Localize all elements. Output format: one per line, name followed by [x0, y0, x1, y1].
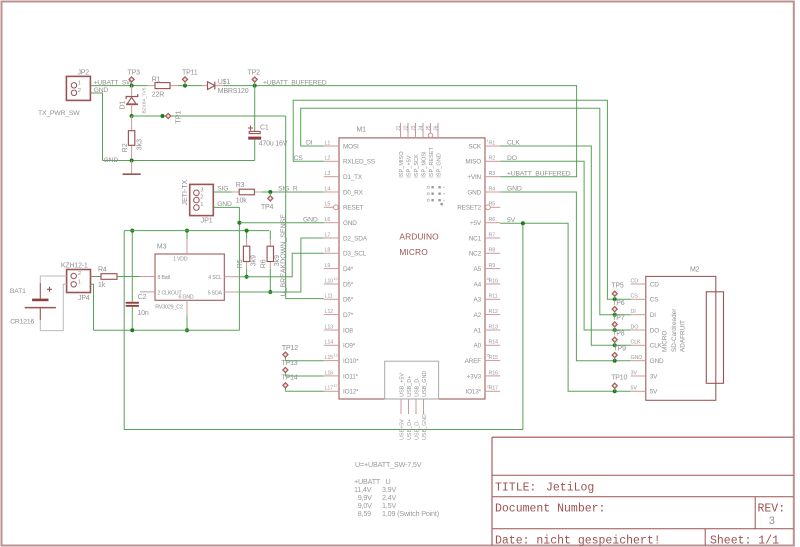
M1 pin name +VIN right	[467, 174, 481, 181]
testpoint TP13 name	[282, 360, 298, 367]
svg-text:1 VDD: 1 VDD	[173, 256, 188, 262]
svg-text:+VIN: +VIN	[467, 174, 481, 181]
M1 ISP pad J4	[418, 125, 424, 131]
junction at TP8	[613, 343, 617, 347]
svg-text:USB_GND: USB_GND	[422, 371, 428, 397]
note row 11,4V 3,9V	[354, 485, 396, 494]
JP1 pin 1 number	[200, 202, 203, 208]
svg-text:L8: L8	[325, 248, 331, 254]
svg-text:MICRO: MICRO	[399, 247, 428, 257]
junction C2 on GND rail	[130, 328, 134, 332]
testpoint TP1	[166, 113, 171, 118]
M1 USB pad USB+5V	[400, 419, 406, 440]
wire +UBATT_BUFFERED down to C1	[254, 86, 256, 132]
capacitor C2 bottom lead	[131, 307, 133, 331]
svg-text:+UBATT_SW: +UBATT_SW	[94, 79, 134, 86]
M1 USB connector gray box	[385, 361, 439, 399]
svg-text:JP1: JP1	[201, 217, 213, 224]
junction at TP4	[268, 190, 272, 194]
M1 ISP pin J5 stub	[428, 123, 432, 138]
svg-text:J2: J2	[403, 125, 409, 131]
capacitor C2 value 10n	[137, 310, 148, 317]
svg-text:D1: D1	[119, 100, 126, 109]
testpoint TP9 name	[614, 346, 627, 353]
JP1 pin 3 number	[200, 187, 203, 193]
svg-text:L10: L10	[325, 278, 334, 284]
svg-text:R1: R1	[152, 76, 161, 83]
svg-text:JetiLog: JetiLog	[546, 482, 594, 495]
M1 ISP pin name ISP_SCK	[414, 154, 420, 178]
svg-text:D1_TX: D1_TX	[343, 174, 363, 181]
M1 pin name D3_SCL	[343, 251, 367, 258]
net label GND at JP2	[94, 87, 109, 94]
M1 pin L5 RESET stub and pad	[324, 202, 339, 210]
IC M2 label MICRO	[662, 331, 669, 352]
svg-text:CLK: CLK	[650, 343, 663, 350]
svg-text:RESET2: RESET2	[457, 205, 481, 212]
resistor R6 body	[267, 246, 273, 261]
net label U_BREAKDOWN_SENSE	[280, 214, 287, 297]
testpoint TP4	[268, 192, 273, 201]
svg-text:A1: A1	[474, 327, 482, 334]
M1 ISP pin name ISP_MOSI	[422, 151, 428, 178]
svg-text:10k: 10k	[236, 198, 247, 205]
M1 pin name D7*	[343, 312, 354, 319]
testpoint TP12 name	[282, 345, 298, 352]
diode U$1 name	[218, 79, 231, 86]
wire CS net from M1 L2 over top to SD card	[293, 100, 631, 299]
svg-text:USB_D+: USB_D+	[407, 376, 413, 397]
M1 pin name A3 right	[474, 297, 482, 304]
title block Document Number label	[495, 503, 605, 516]
M1 pin name GND	[343, 220, 357, 227]
JP1 pin 2 number	[200, 195, 203, 201]
note row 8,59 1,09 switch point	[358, 509, 439, 518]
svg-text:TP8: TP8	[612, 330, 625, 337]
svg-text:RXLED_SS: RXLED_SS	[343, 159, 375, 166]
M1 pin name IO11*	[343, 373, 359, 380]
M1 pin name GND right	[467, 189, 481, 196]
svg-text:DO: DO	[507, 155, 517, 162]
M1 pin name D2_SDA	[343, 235, 368, 242]
resistor R2 body	[128, 131, 134, 146]
battery BAT1 negative plate	[25, 307, 56, 309]
svg-text:R1: R1	[489, 140, 496, 146]
M1 USB pad USB_GND	[422, 414, 428, 440]
svg-text:CS: CS	[294, 155, 304, 162]
M1 pin name MISO right	[465, 159, 481, 166]
IC M3 value RV3029_C2	[155, 304, 183, 310]
svg-text:USB_+5V: USB_+5V	[400, 373, 406, 397]
net label CS	[294, 155, 304, 162]
testpoint TP3 name	[128, 70, 141, 77]
svg-text:R5: R5	[489, 202, 496, 208]
capacitor C1 bottom plate	[248, 137, 261, 140]
M1 pin L17 IO12* stub and pad	[324, 384, 339, 392]
battery BAT1 leads	[39, 283, 41, 320]
title block Date	[495, 535, 661, 547]
M1 pin name D6*	[343, 297, 354, 304]
battery BAT1 name	[10, 288, 26, 295]
M2 pin name DO	[650, 327, 659, 334]
title block TITLE label	[495, 482, 536, 495]
testpoint TP5	[612, 291, 617, 299]
net label 5V	[507, 217, 516, 224]
svg-text:TP4: TP4	[261, 204, 274, 211]
IC M3 name	[157, 244, 167, 251]
svg-text:MISO: MISO	[465, 159, 481, 166]
svg-text:L15: L15	[325, 355, 334, 361]
svg-text:15: 15	[334, 353, 338, 357]
svg-text:D2_SDA: D2_SDA	[343, 235, 368, 242]
note row 9,9V 2,4V	[358, 493, 397, 502]
connector JP2 body	[66, 76, 90, 100]
wire DO from M1 R2 to SD card	[500, 161, 631, 330]
svg-text:TP6: TP6	[612, 300, 625, 307]
svg-text:15: 15	[486, 354, 490, 358]
M1 USB pin USB_GND stub	[423, 399, 425, 414]
M3 pin 2 CLKOUT label	[158, 290, 183, 296]
svg-text:NC2: NC2	[469, 251, 482, 258]
M1 ISP pin J2 stub	[407, 123, 409, 138]
junction C2 on 5V rail	[130, 229, 134, 233]
M2 pin name CD	[650, 281, 659, 288]
M1 pin R12 A2 stub and pad	[485, 309, 500, 315]
net label +UBATT_BUFFERED	[263, 79, 327, 86]
svg-text:R11: R11	[489, 294, 498, 300]
svg-text:3k9: 3k9	[274, 255, 281, 266]
M3 pin 5 SDA label	[208, 290, 223, 296]
M1 pin L8 D3_SCL stub and pad	[324, 248, 339, 254]
svg-text:470u 16V: 470u 16V	[259, 141, 288, 148]
svg-text:R5: R5	[237, 259, 244, 268]
svg-text:TP5: TP5	[611, 283, 624, 290]
net label DO	[507, 155, 517, 162]
wire +UBATT_BUFFERED top run	[224, 86, 577, 177]
svg-text:6 GND: 6 GND	[179, 295, 194, 301]
svg-text:SIG: SIG	[217, 186, 228, 193]
label TX_PWR_SW	[38, 110, 80, 117]
title block revision value 3	[769, 516, 776, 528]
svg-text:R7: R7	[489, 232, 496, 238]
svg-text:L14: L14	[325, 340, 334, 346]
resistor R1 body	[155, 83, 170, 89]
svg-text:SIG_R: SIG_R	[278, 186, 298, 193]
svg-text:D0_RX: D0_RX	[343, 189, 364, 196]
net label GND at R4	[507, 186, 522, 193]
svg-text:ISP_RESET: ISP_RESET	[429, 146, 435, 177]
testpoint TP13	[283, 367, 288, 376]
svg-text:R9: R9	[489, 263, 496, 269]
resistor R3 body	[239, 189, 254, 195]
net label SIG	[217, 186, 228, 193]
testpoint TP1 name	[176, 111, 183, 124]
svg-text:R2: R2	[489, 156, 496, 162]
svg-text:5V: 5V	[631, 386, 638, 392]
junction at TP3 +UBATT_SW	[130, 84, 134, 88]
svg-text:R13: R13	[489, 324, 499, 330]
svg-text:GND: GND	[303, 216, 318, 223]
IC M2 SD-Cardreader body	[646, 276, 716, 400]
JP2 pin 1 number	[78, 80, 81, 86]
net label GND rail	[104, 157, 119, 164]
svg-text:DI: DI	[650, 312, 656, 319]
M1 USB pin name USB_GND	[422, 371, 428, 397]
M1 pin R14 A0 stub and pad	[485, 340, 500, 346]
testpoint TP7 name	[612, 315, 625, 322]
gray wire battery minus to JP4 pin1	[40, 284, 66, 330]
svg-text:USB_D-: USB_D-	[415, 377, 421, 397]
wire R4 to M3 Batt	[117, 276, 140, 278]
M1 ISP pin name ISP_MISO	[399, 151, 405, 178]
resistor R6 name	[261, 259, 268, 268]
net label GND at L6	[303, 216, 318, 223]
M1 USB pin USB_D+ stub	[408, 399, 410, 414]
svg-text:KZH12-1: KZH12-1	[61, 262, 88, 269]
wire D1 to U_BREAKDOWN_SENSE node	[131, 105, 133, 116]
M1 pin name A4 right	[474, 281, 482, 288]
M1 ISP pin J6 stub	[437, 123, 439, 138]
svg-text:D3_SCL: D3_SCL	[343, 251, 367, 258]
M1 USB pad USB_D+	[407, 419, 413, 440]
svg-text:R12: R12	[489, 309, 499, 315]
junction 5V branch at R6	[521, 221, 525, 225]
M1 pin name IO13* right	[466, 389, 482, 396]
connector JP2 name	[77, 70, 89, 77]
testpoint TP8 name	[612, 330, 625, 337]
M3 SDA pin stub	[224, 291, 239, 293]
wire JP4 pin2 to R4	[91, 276, 101, 278]
svg-text:C1: C1	[260, 125, 269, 132]
testpoint TP5 name	[611, 283, 624, 290]
M1 pin name D0_RX	[343, 189, 364, 196]
svg-text:C2: C2	[138, 294, 147, 301]
svg-text:TP13: TP13	[282, 360, 298, 367]
title block Sheet 1/1	[710, 535, 779, 547]
note row 9,0V 1,5V	[358, 501, 397, 510]
svg-text:L4: L4	[325, 186, 331, 192]
junction at TP7	[613, 328, 617, 332]
svg-text:M1: M1	[357, 127, 367, 134]
M1 ISP pad J6	[433, 125, 439, 131]
capacitor C1 top plate	[249, 131, 260, 133]
svg-text:3: 3	[769, 516, 776, 528]
svg-text:TP14: TP14	[282, 375, 298, 382]
svg-text:3V: 3V	[650, 373, 658, 380]
wire SCL from M3 to M1 L8	[239, 253, 323, 276]
M2 pin 5V stub and pad	[631, 386, 646, 392]
svg-text:U_BREAKDOWN_SENSE: U_BREAKDOWN_SENSE	[280, 214, 287, 297]
svg-text:DI: DI	[631, 309, 636, 315]
testpoint TP2	[252, 77, 257, 86]
zener diode D1 value BZX84_7V5	[141, 87, 147, 113]
svg-text:R3: R3	[236, 182, 245, 189]
M1 pin L12 D7* stub and pad	[324, 309, 339, 315]
svg-text:JP2: JP2	[77, 70, 89, 77]
junction at TP9	[613, 359, 617, 363]
svg-text:RV3029_C2: RV3029_C2	[155, 304, 183, 310]
wire DI net from M1 L1 over top to SD card	[301, 108, 631, 314]
battery BAT1 plus sign	[47, 287, 52, 292]
M2 pin 3V stub and pad	[631, 370, 646, 376]
connector JP1 body	[190, 184, 214, 215]
svg-text:1,09 (Switch Point): 1,09 (Switch Point)	[382, 509, 439, 518]
wire GND rail	[103, 160, 255, 162]
svg-text:GND: GND	[94, 87, 109, 94]
junction JP1-GND to L6 wire	[237, 221, 241, 225]
M1 ISP pad J1	[396, 125, 402, 131]
svg-text:IO11*: IO11*	[343, 373, 359, 380]
M2 pin name 5V	[650, 389, 658, 396]
JP2 pin 2 number	[78, 88, 81, 94]
svg-text:J4: J4	[418, 125, 424, 131]
M1 pin name IO9*	[343, 343, 356, 350]
testpoint TP8	[612, 337, 617, 345]
M1 USB pin name USB_D-	[415, 377, 421, 397]
IC M2 card slot	[706, 292, 723, 384]
svg-text:L1: L1	[325, 140, 331, 146]
title block title value JetiLog	[546, 482, 594, 495]
connector JP1 label JETI-TX	[182, 180, 189, 206]
svg-text:22R: 22R	[152, 91, 164, 98]
M1 ISP pin name ISP_RESET	[429, 146, 435, 177]
svg-text:ADAFRUIT: ADAFRUIT	[680, 320, 687, 352]
M1 pin L11 D6* stub and pad	[324, 294, 339, 300]
svg-text:17: 17	[486, 384, 490, 388]
svg-text:D5*: D5*	[343, 281, 354, 288]
wire C1 to GND rail	[254, 140, 256, 161]
M1 pin name RXLED_SS	[343, 159, 375, 166]
M3 VDD pin stub	[186, 239, 188, 254]
svg-text:TP9: TP9	[614, 346, 627, 353]
M3 Batt pin stub	[140, 276, 155, 278]
M2 pin DI stub and pad	[631, 309, 646, 315]
M3 pin 6 GND label	[179, 295, 194, 301]
M1 pin name D1_TX	[343, 174, 363, 181]
M1 ISP pin name ISP_+5V	[407, 155, 413, 178]
M1 pin name NC1 right	[469, 235, 482, 242]
M2 pin GND stub and pad	[631, 355, 646, 361]
M1 pin name IO8	[343, 327, 353, 334]
M3 pin 8 Batt label	[158, 275, 171, 281]
M1 pin L10 D5* stub and pad	[324, 277, 339, 285]
svg-text:5V: 5V	[650, 389, 658, 396]
svg-text:AREF: AREF	[465, 358, 482, 365]
wire TP1 horizontal U_BREAKDOWN_SENSE	[132, 115, 286, 117]
svg-text:ISP_SCK: ISP_SCK	[414, 154, 420, 178]
testpoint TP6	[612, 306, 617, 314]
svg-text:R2: R2	[122, 143, 129, 152]
svg-text:L3: L3	[325, 171, 331, 177]
svg-text:IO12*: IO12*	[343, 389, 359, 396]
M1 pin name A5 right	[474, 266, 482, 273]
svg-text:D6*: D6*	[343, 297, 354, 304]
svg-text:R4: R4	[489, 186, 496, 192]
M1 pin R16 +3V3 stub and pad	[485, 370, 500, 376]
wire 5V left vertical down to bottom run	[124, 223, 523, 429]
svg-text:A4: A4	[474, 281, 482, 288]
svg-text:L7: L7	[325, 232, 331, 238]
testpoint TP9	[612, 352, 617, 360]
wire L17 to TP14	[285, 390, 323, 392]
resistor R3 value 10k	[236, 198, 247, 205]
M2 pin name GND	[650, 358, 664, 365]
resistor R6 value 3k9	[274, 255, 281, 266]
svg-text:CD: CD	[650, 281, 659, 288]
svg-text:MICRO: MICRO	[662, 331, 669, 352]
svg-text:8 Batt: 8 Batt	[158, 275, 171, 281]
svg-text:ISP_+5V: ISP_+5V	[407, 155, 413, 178]
capacitor C1 plus sign	[248, 126, 253, 131]
svg-text:+5V: +5V	[470, 220, 482, 227]
testpoint TP14	[283, 383, 288, 392]
svg-text:L9: L9	[325, 263, 331, 269]
net label +UBATT_BUFFERED at R3	[507, 170, 571, 177]
svg-text:R3: R3	[489, 171, 496, 177]
resistor R2 value 3k3	[136, 139, 143, 150]
wire JP2 pin2 GND down	[91, 93, 103, 161]
svg-text:MBRS120: MBRS120	[218, 88, 249, 95]
junction at TP10	[613, 389, 617, 393]
gray wire battery plus to JP4 pin2	[40, 276, 66, 283]
svg-text:TP3: TP3	[128, 70, 141, 77]
svg-text:3k3: 3k3	[136, 139, 143, 150]
M1 pin R13 A1 stub and pad	[485, 324, 500, 330]
wire GND from JP1 down	[214, 207, 240, 330]
wire CLK from M1 R1 to SD card	[500, 146, 631, 345]
diode U$1 leads	[202, 85, 224, 87]
connector JP4 label KZH12-1	[61, 262, 88, 269]
M1 ISP pad J3	[411, 125, 417, 131]
svg-text:REV:: REV:	[758, 503, 786, 516]
M1 pin R4 GND stub and pad	[485, 186, 500, 192]
M1 pin L13 IO8 stub and pad	[324, 324, 339, 330]
svg-text:USB_D-: USB_D-	[415, 420, 421, 440]
svg-text:L17: L17	[325, 386, 334, 392]
svg-text:ISP_MOSI: ISP_MOSI	[422, 151, 428, 178]
M1 pin R10 A4 stub and pad	[485, 277, 500, 284]
svg-text:L16: L16	[325, 370, 334, 376]
svg-text:2: 2	[200, 195, 203, 201]
svg-text:TITLE:: TITLE:	[495, 482, 536, 495]
svg-text:J6: J6	[433, 125, 439, 131]
svg-text:1: 1	[78, 279, 81, 285]
M1 pin R9 A5 stub and pad	[485, 263, 500, 269]
junction R2 GND rail	[130, 159, 134, 163]
junction at TP1	[161, 114, 165, 118]
junction at TP11	[183, 84, 187, 88]
svg-text:USB_GND: USB_GND	[422, 414, 428, 440]
wire JP4 pin1 down to GND rail	[91, 284, 94, 330]
testpoint TP11 name	[182, 70, 198, 77]
M1 pin R1 SCK stub and pad	[485, 139, 500, 146]
M1 pin R2 MISO stub and pad	[485, 156, 500, 162]
IC M2 label ADAFRUIT	[680, 320, 687, 352]
junction R6 bottom on SDA	[268, 290, 272, 294]
M1 USB pin USB_+5V stub	[400, 399, 402, 414]
resistor R1 leads	[148, 85, 178, 87]
svg-text:RESET: RESET	[343, 205, 364, 212]
svg-text:CLK: CLK	[507, 140, 520, 147]
M1 pin name D4*	[343, 266, 354, 273]
svg-text:R8: R8	[489, 248, 496, 254]
wire 5V from M1 R6 to SD card	[500, 223, 631, 391]
M2 pin CS stub and pad	[631, 294, 646, 300]
svg-text:TP10: TP10	[611, 375, 627, 382]
svg-text:R15: R15	[489, 355, 499, 361]
resistor R5 body	[243, 246, 249, 261]
M1 pin name MOSI	[343, 143, 359, 150]
